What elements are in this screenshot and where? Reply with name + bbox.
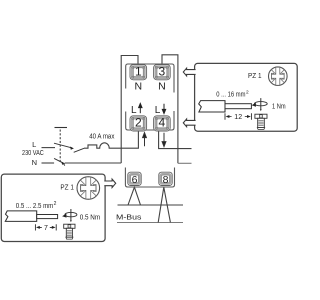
svg-text:N: N (135, 81, 143, 93)
svg-text:1: 1 (135, 65, 142, 79)
svg-text:0 ... 16 mm: 0 ... 16 mm (216, 91, 245, 98)
svg-text:1 Nm: 1 Nm (272, 104, 286, 111)
svg-text:0.5 ... 2.5 mm: 0.5 ... 2.5 mm (16, 203, 54, 210)
svg-text:L: L (131, 105, 137, 116)
svg-text:2: 2 (135, 116, 142, 130)
svg-text:N: N (32, 158, 37, 167)
svg-text:PZ 1: PZ 1 (60, 183, 74, 192)
svg-text:N: N (158, 81, 166, 93)
svg-text:0.5 Nm: 0.5 Nm (80, 214, 101, 221)
svg-text:8: 8 (163, 174, 169, 186)
svg-text:6: 6 (132, 174, 138, 186)
svg-text:L: L (155, 105, 161, 116)
svg-text:3: 3 (159, 65, 166, 79)
svg-text:12: 12 (234, 114, 242, 121)
svg-text:4: 4 (159, 116, 166, 130)
svg-text:7: 7 (44, 225, 48, 232)
svg-text:40 A max: 40 A max (89, 134, 115, 141)
svg-text:2: 2 (246, 90, 249, 96)
svg-text:230 VAC: 230 VAC (22, 150, 44, 157)
svg-text:M-Bus: M-Bus (116, 215, 142, 222)
svg-text:PZ 1: PZ 1 (248, 71, 262, 80)
svg-text:L: L (32, 140, 36, 149)
svg-text:2: 2 (54, 201, 57, 207)
